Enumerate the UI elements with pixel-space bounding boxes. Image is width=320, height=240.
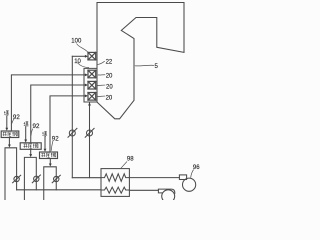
damper V4 on burner22 downcomer [68, 128, 77, 137]
arrow mill M2 to riser [29, 154, 32, 157]
air heater 98 box [101, 169, 129, 197]
mill M1 outlet wire [8, 138, 10, 145]
fan 96 [179, 175, 195, 191]
mill M1 box [1, 131, 19, 138]
damper V3 on riser3 [52, 175, 60, 183]
arrow coal into mill M1 [5, 128, 8, 131]
svg-text:92: 92 [13, 114, 20, 121]
wire feed line S1 to burner 20#1 [11, 75, 86, 131]
leader 20 #1 [98, 74, 106, 76]
leader 22 [97, 61, 105, 64]
svg-text:96: 96 [193, 165, 200, 171]
wire air heater to PA fan [129, 189, 158, 191]
wire feed to burner 22 [72, 55, 86, 57]
leader 92 mill3 [51, 141, 53, 151]
svg-text:10: 10 [74, 59, 81, 65]
leader 96 [191, 170, 194, 178]
coal feed wire 3 [44, 137, 46, 150]
svg-text:92: 92 [33, 123, 40, 130]
arrow coal into mill M3 [44, 149, 47, 152]
mill M3 outlet wire [49, 159, 51, 164]
mill M3 box [40, 152, 58, 159]
wire feed line S3 to burner 20#3 [50, 96, 86, 152]
burner 20 #2 [88, 81, 96, 89]
wire bottom air line row2 [17, 189, 101, 191]
furnace 5 outline [97, 3, 184, 119]
svg-text:22: 22 [106, 60, 113, 66]
svg-text:92: 92 [52, 135, 59, 142]
wire feed line S2 to burner 20#2 [31, 85, 86, 143]
coal feed wire 2 [25, 127, 27, 141]
burner U22 [88, 52, 96, 60]
label coal for mill M3 [42, 131, 47, 136]
mill M1 riser duct [5, 148, 17, 200]
burner 20 #3 [88, 93, 96, 101]
leader 98 [121, 162, 127, 169]
leader 100 to burner 22 [77, 44, 88, 52]
arrowheads [5, 55, 91, 167]
air heater element row2 [101, 187, 129, 193]
svg-text:98: 98 [127, 157, 134, 163]
mill M2 outlet wire [30, 149, 32, 154]
arrow mill M3 to riser [49, 164, 52, 167]
arrow into burner 22 [85, 55, 88, 58]
leader 20 #2 [97, 84, 105, 86]
damper V1 on riser1 [13, 175, 21, 183]
leader 92 mill2 [31, 129, 33, 136]
air heater element row1 [101, 174, 129, 182]
label coal for mill M1 [4, 111, 9, 116]
svg-text:100: 100 [71, 38, 82, 44]
mill M2 box [20, 143, 41, 150]
arrow coal into mill M2 [24, 140, 27, 143]
mill M2 box text [23, 144, 38, 148]
wire burner22 downcomer [71, 56, 73, 177]
wire air heater to fan 96 [129, 177, 179, 179]
mill M1 box text [3, 132, 18, 136]
svg-text:20: 20 [106, 96, 113, 102]
damper V2 on riser2 [32, 175, 40, 183]
mill M2 riser duct [24, 157, 36, 200]
wire bottom air line row1 [72, 177, 101, 179]
svg-text:20: 20 [106, 74, 113, 80]
primary air fan [158, 189, 174, 203]
label coal for mill M2 [24, 122, 29, 127]
leader 92 mill1 [12, 119, 14, 124]
leader 5 [135, 64, 154, 67]
leader 10 to windbox [78, 63, 90, 68]
arrow into burner 20#2 [85, 84, 88, 87]
wire windbox air riser [89, 103, 91, 178]
windbox [84, 68, 97, 102]
arrow into burner 20#1 [85, 74, 88, 77]
mill M3 box text [41, 153, 56, 157]
leader lines [12, 44, 194, 178]
burner 20 #1 [88, 70, 96, 78]
coal feed wire 1 [6, 116, 8, 129]
svg-text:20: 20 [106, 85, 113, 91]
leader 20 #3 [98, 95, 106, 97]
damper V5 on windbox riser [85, 128, 94, 137]
arrow mill M1 to riser [8, 145, 11, 148]
arrow into burner 20#3 [85, 95, 88, 98]
mill M3 riser duct [44, 167, 57, 200]
arrow up into windbox [88, 102, 91, 105]
